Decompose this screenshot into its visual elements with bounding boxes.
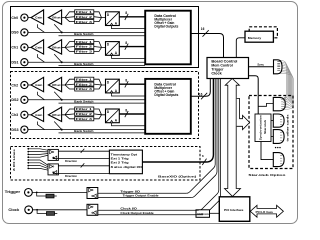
wire amp to filter fan [62,12,75,22]
wire DS2 [28,99,145,101]
svg-text:8 I/O Lines: 8 I/O Lines [12,149,16,171]
svg-text:8: 8 [125,79,127,83]
svg-text:Bank Switch: Bank Switch [74,99,94,103]
wire ADC clock [112,55,146,58]
svg-text:Ext 2 Trig: Ext 2 Trig [111,161,129,165]
bank switch line Ch0 [59,35,146,37]
svg-text:Gain: Gain [35,16,43,20]
amplifier offset Ch0 [48,10,61,24]
wire amp gain to DS2 [38,92,45,100]
svg-text:Ch0: Ch0 [11,16,18,20]
filter 1 Ch1 [75,40,94,44]
svg-text:Filter 1: Filter 1 [76,107,93,111]
svg-text:DS0: DS0 [11,31,18,35]
svg-text:Filter 2: Filter 2 [76,15,93,19]
svg-text:Filter 3: Filter 3 [76,20,93,24]
wire amp to filter fan [62,79,75,89]
wire direction upper [53,157,109,159]
data bus ADC to multiplexer [119,46,145,48]
svg-text:DS3: DS3 [11,128,18,132]
svg-text:Digital Outputs: Digital Outputs [154,25,178,29]
wire filter fan to ADC [94,79,106,89]
junction trigger termination [36,192,38,194]
board control U3 [207,58,249,79]
wire amp offset to DS0 [54,24,62,32]
filter 3 Ch2 [75,87,94,91]
svg-text:Filter 2: Filter 2 [76,82,93,86]
connector Trigger [25,189,33,197]
connector star-hub D [273,153,284,167]
timestamp option box [109,150,143,174]
memory bank 2 (dashed option) [249,27,277,38]
svg-text:Ch1: Ch1 [11,46,18,50]
wire trigger input [32,191,86,193]
svg-text:Clock Output Enable: Clock Output Enable [120,211,154,215]
bus timestamp to board control [142,79,213,163]
svg-text:Digital Outputs: Digital Outputs [154,93,178,97]
sync ribbon cable to star-hub [280,60,293,109]
connector Ch0 [21,14,28,21]
svg-text:Clock I/O: Clock I/O [120,207,138,211]
star-hub option box (dashed) [249,96,293,169]
buffer I/O lower [48,164,58,175]
multiplexer U1 (Data Control Multiplexer group 0-1) [145,11,191,65]
wire star-hub to connector B [271,120,273,122]
amplifier gain Ch0 [31,10,44,24]
filter 3 Ch3 [75,117,94,121]
ribbon hatch into connector A [283,97,286,108]
channel chain Ch0 [11,10,145,36]
filter 2 Ch3 [75,112,94,116]
wire connector to amp [28,17,31,19]
svg-text:16: 16 [199,92,203,96]
bank switch line Ch2 [59,102,146,104]
wire sync [249,66,274,68]
wire star-hub to connector D [261,142,273,160]
amplifier gain Ch2 [31,77,44,91]
svg-text:Trigger: Trigger [5,190,22,194]
wire amp to filter fan [62,109,75,119]
junction DS1 [61,61,63,63]
connector DS1 [21,59,28,66]
svg-text:BaseXIO (Option): BaseXIO (Option) [158,174,196,178]
svg-text:EEProm: EEProm [197,212,209,216]
I/O pins and wires [28,149,48,170]
filter 2 Ch0 [75,15,94,19]
svg-text:Offset: Offset [52,16,61,20]
svg-text:to other cards: to other cards [285,114,289,142]
connector DS3 [21,126,28,133]
buffer clock [87,204,98,215]
filter 1 Ch3 [75,107,94,111]
svg-text:PCI-X bus: PCI-X bus [256,210,274,214]
bus upper buffer to timestamp [58,150,109,152]
connector DS2 [21,96,28,103]
svg-text:8: 8 [125,108,127,112]
svg-text:Memory: Memory [248,36,262,40]
buffer I/O upper [48,149,58,160]
svg-text:Offset: Offset [52,113,61,117]
wire connector to amp [28,46,31,48]
svg-text:Filter 1: Filter 1 [76,10,93,14]
bus arrow branch to star-hub [237,99,250,130]
termination resistor clock [47,212,55,216]
filter 1 Ch2 [75,77,94,81]
multiplexer U2 (Data Control Multiplexer group 2-3) [145,79,191,134]
svg-text:Filter 2: Filter 2 [76,45,93,49]
bus 16 from multiplexer U1 to board control [191,34,224,58]
svg-text:8: 8 [125,11,127,15]
connector Ch3 [21,111,28,118]
data bus ADC to multiplexer [119,16,145,18]
wire clock output enable [98,214,203,216]
amplifier offset Ch2 [48,77,61,91]
wire ADC clock [112,26,146,29]
filter 3 Ch0 [75,20,94,24]
bus lower buffer to timestamp [58,165,109,167]
wire connector to amp [28,114,31,116]
svg-text:Bank Switch: Bank Switch [74,62,94,66]
wire board control to star-hub [249,76,259,114]
wire amp offset to DS3 [54,122,62,130]
wires trigger and clock to board control [186,79,220,215]
synchronization star-hub U4 [255,114,271,142]
bus arrow PCI-X [250,205,283,217]
svg-text:Gain: Gain [35,113,43,117]
wire trigger I/O [98,192,187,194]
svg-text:DS1: DS1 [11,61,18,65]
svg-text:Clock: Clock [8,208,19,212]
group box channels 0-1 [11,7,199,68]
bank switch line Ch1 [59,65,146,67]
svg-text:Filter 1: Filter 1 [76,40,93,44]
svg-text:Filter 3: Filter 3 [76,117,93,121]
svg-text:Sync: Sync [257,62,264,66]
channel chain Ch2 [11,77,145,103]
ADC Ch2 [106,79,120,93]
connector star-hub B [273,114,284,127]
svg-text:Synchronization: Synchronization [258,115,262,140]
filter 3 Ch1 [75,49,94,53]
bus 16 from multiplexer U2 to board control [191,79,210,97]
ADC Ch1 [106,42,120,56]
amplifier offset Ch1 [48,40,61,54]
svg-text:Star-Hub Option: Star-Hub Option [248,173,285,177]
svg-text:Gain: Gain [35,83,43,87]
ADC Ch3 [106,109,120,123]
EEPROM U6 [196,210,210,218]
wire amp gain to DS1 [38,54,45,62]
termination resistor trigger [46,194,54,198]
ADC Ch0 [106,12,120,26]
svg-text:PCI Interface: PCI Interface [224,208,244,212]
junction DS2 [61,99,63,101]
connector star-hub C [273,130,284,144]
junction clock termination [36,209,38,211]
wire DS0 [28,31,145,33]
svg-text:Filter 1: Filter 1 [76,77,93,81]
svg-text:8: 8 [125,41,127,45]
svg-text:8 also digital I/O: 8 also digital I/O [111,165,144,169]
channel chain Ch3 [11,107,145,133]
junction DS0 [61,31,63,33]
connector DS0 [21,29,28,36]
svg-text:Clock: Clock [211,71,222,75]
svg-text:Direction: Direction [65,174,77,178]
wire star-hub to connector C [271,136,273,138]
data bus ADC to multiplexer [119,113,145,115]
filter 2 Ch1 [75,45,94,49]
connector Clock [25,206,33,214]
wire ADC clock [112,123,146,126]
wire DS1 [28,61,145,63]
connector sync [274,60,283,74]
svg-text:Ch3: Ch3 [11,113,18,117]
ellipsis more cards [275,147,276,148]
PCI interface U5 [219,197,250,222]
bus arrow board control to PCI interface [225,79,241,197]
BaseXIO option box (dashed) [11,147,201,181]
wire clock input [33,209,87,211]
svg-text:DS2: DS2 [11,98,18,102]
svg-text:Gain: Gain [35,46,43,50]
memory M1 [245,31,273,42]
filter 2 Ch2 [75,82,94,86]
wire filter fan to ADC [94,109,106,119]
connector Ch2 [21,81,28,88]
svg-text:Offset: Offset [52,83,61,87]
wire filter fan to ADC [94,12,106,22]
wire amp gain to DS0 [38,24,45,32]
wire connector to amp [28,84,31,86]
bank switch line Ch3 [59,132,146,134]
group box channels 2-3 (option, dashed) [11,72,199,139]
svg-text:Star-Hub: Star-Hub [263,119,267,134]
amplifier gain Ch1 [31,40,44,54]
amplifier offset Ch3 [48,107,61,121]
svg-text:Direction: Direction [65,159,77,163]
amplifier gain Ch3 [31,107,44,121]
svg-text:Bank Switch: Bank Switch [74,32,94,36]
wire memory to board control [236,38,245,58]
wire amp gain to DS3 [38,122,45,130]
wire clock I/O [98,209,199,211]
svg-text:Ch2: Ch2 [11,83,18,87]
svg-text:Filter 2: Filter 2 [76,112,93,116]
wire DS3 [28,129,145,131]
connector star-hub A [273,97,285,110]
wire amp offset to DS2 [54,92,62,100]
svg-text:Trigger Output Enable: Trigger Output Enable [123,194,160,198]
filter 1 Ch0 [75,10,94,14]
channel chain Ch1 [11,40,145,66]
svg-text:Filter 3: Filter 3 [76,50,93,54]
svg-text:Bank Switch: Bank Switch [74,129,94,133]
wire amp to filter fan [62,42,75,52]
wire trigger output enable [98,197,192,199]
data bus ADC to multiplexer [119,83,145,85]
wire ADC clock [112,93,146,96]
wire amp offset to DS1 [54,54,62,62]
junction DS3 [61,129,63,131]
wire EEPROM to PCI interface [210,212,220,214]
svg-text:Offset: Offset [52,46,61,50]
wire direction lower [53,172,109,174]
wire filter fan to ADC [94,42,106,52]
svg-text:16: 16 [201,27,205,31]
connector Ch1 [21,44,28,51]
buffer trigger [87,188,98,199]
svg-text:Filter 3: Filter 3 [76,87,93,91]
